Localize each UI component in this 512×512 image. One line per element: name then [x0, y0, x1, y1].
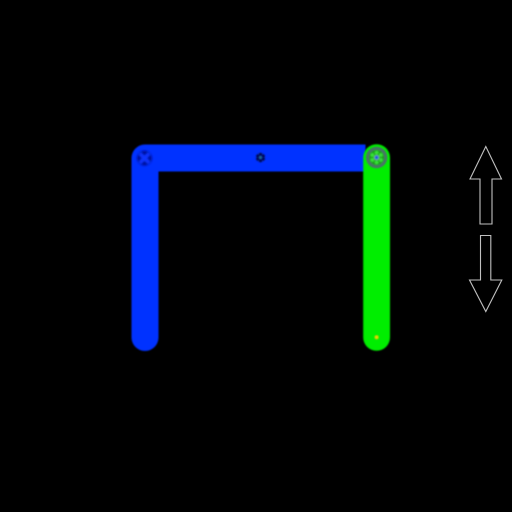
yellow dot on green bar bottom [375, 335, 379, 339]
wheel joint on green bar top [366, 147, 387, 168]
green vertical bar [363, 144, 390, 351]
down arrow [470, 236, 502, 312]
up arrow [470, 147, 502, 225]
pin joint X icon on blue bar [137, 151, 152, 166]
blue L-shaped bar [132, 145, 366, 352]
small gear marker at blue bar center [256, 153, 265, 163]
